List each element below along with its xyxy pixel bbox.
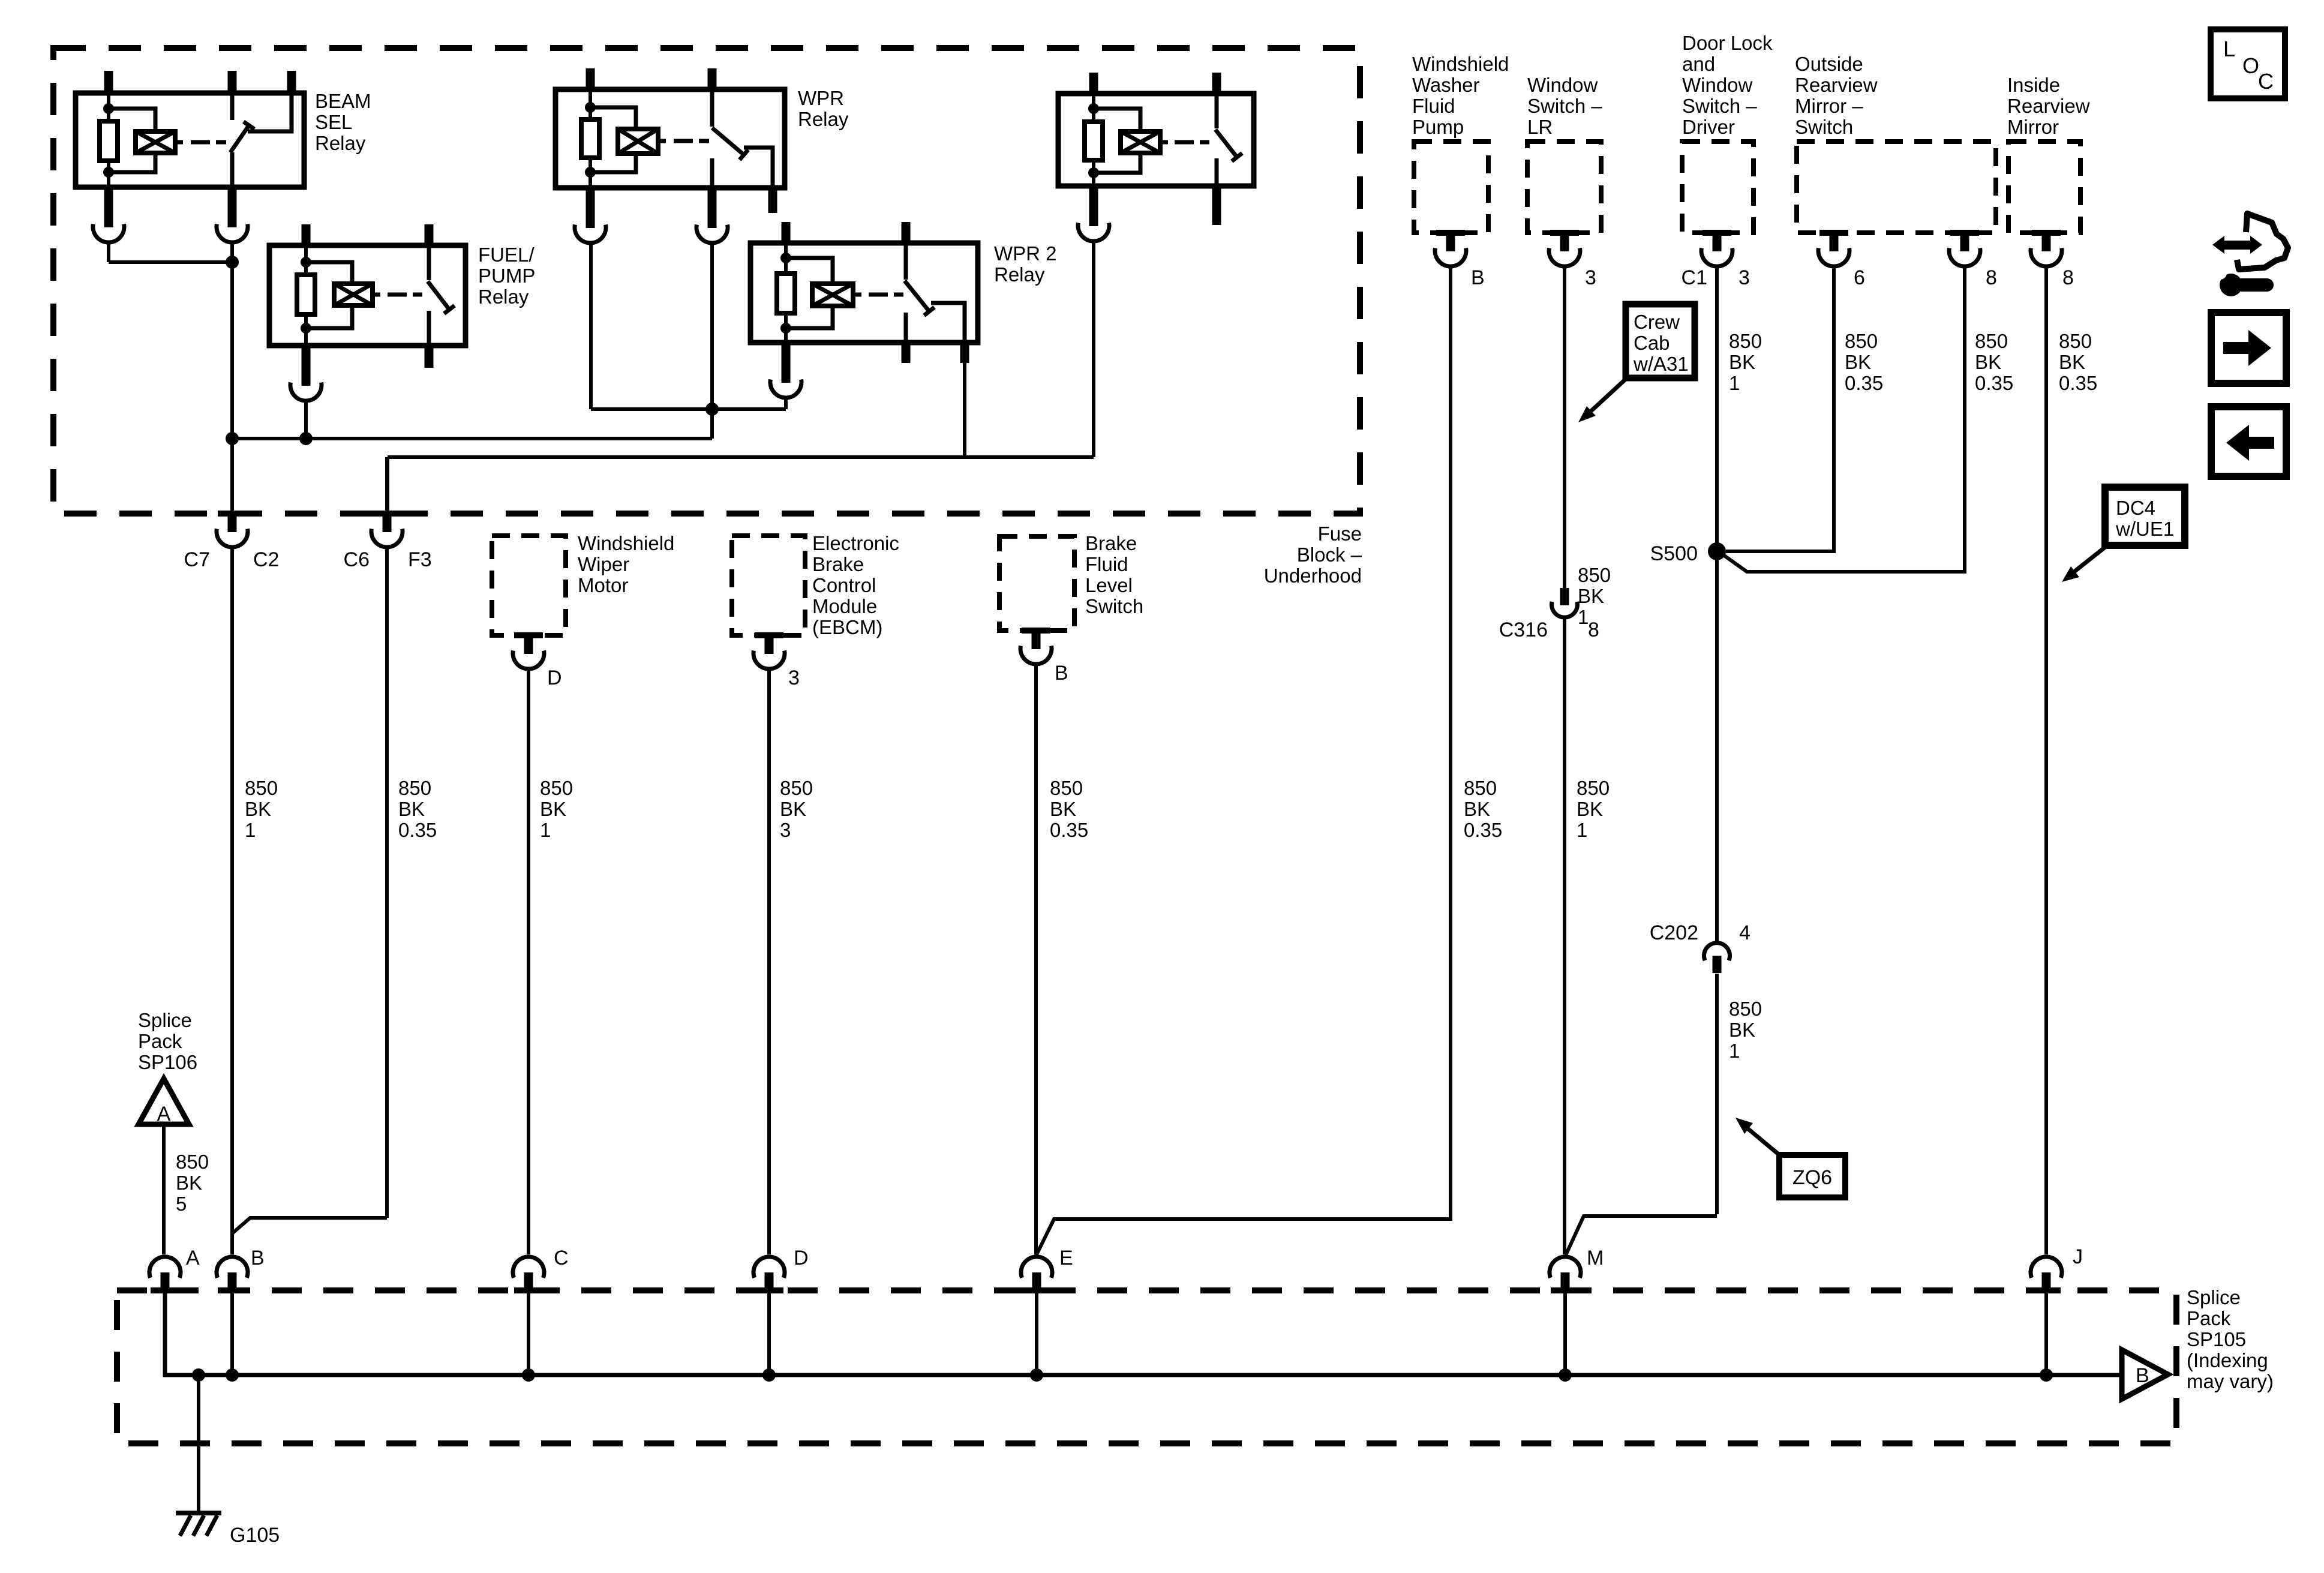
svg-text:Rearview: Rearview [2007, 95, 2090, 117]
svg-text:850: 850 [780, 777, 813, 799]
svg-text:BK: BK [1578, 585, 1604, 607]
svg-text:0.35: 0.35 [1050, 819, 1088, 841]
svg-text:D: D [547, 667, 562, 689]
svg-text:C316: C316 [1499, 619, 1548, 641]
svg-text:Electronic: Electronic [812, 532, 899, 554]
svg-text:and: and [1682, 53, 1715, 75]
svg-text:BK: BK [780, 798, 806, 820]
svg-text:w/UE1: w/UE1 [2115, 518, 2174, 540]
svg-text:BK: BK [398, 798, 425, 820]
svg-text:Motor: Motor [578, 574, 628, 596]
svg-text:0.35: 0.35 [398, 819, 437, 841]
svg-text:FUEL/: FUEL/ [478, 244, 535, 266]
svg-text:SEL: SEL [315, 111, 352, 133]
svg-text:L: L [2223, 37, 2235, 61]
svg-text:1: 1 [1577, 819, 1587, 841]
svg-text:Underhood: Underhood [1264, 565, 1362, 587]
svg-text:1: 1 [245, 819, 256, 841]
svg-text:Driver: Driver [1682, 116, 1735, 138]
svg-text:C2: C2 [253, 548, 279, 571]
svg-text:(Indexing: (Indexing [2187, 1349, 2268, 1371]
svg-text:3: 3 [788, 667, 800, 689]
svg-text:A: A [186, 1247, 200, 1269]
svg-text:Switch –: Switch – [1527, 95, 1602, 117]
svg-text:F3: F3 [408, 548, 432, 571]
svg-text:BK: BK [1577, 798, 1603, 820]
svg-text:WPR 2: WPR 2 [994, 242, 1057, 265]
svg-text:Outside: Outside [1795, 53, 1863, 75]
svg-text:BK: BK [540, 798, 566, 820]
svg-text:Mirror: Mirror [2007, 116, 2059, 138]
svg-text:Relay: Relay [315, 132, 366, 154]
svg-text:B: B [1055, 662, 1068, 685]
svg-text:Brake: Brake [812, 553, 864, 575]
svg-text:BK: BK [1729, 351, 1755, 373]
svg-text:BEAM: BEAM [315, 90, 371, 112]
svg-text:850: 850 [245, 777, 278, 799]
svg-text:5: 5 [176, 1193, 187, 1215]
svg-text:Level: Level [1085, 574, 1133, 596]
svg-text:Switch –: Switch – [1682, 95, 1757, 117]
svg-text:C7: C7 [184, 548, 210, 571]
svg-text:BK: BK [245, 798, 271, 820]
svg-text:ZQ6: ZQ6 [1792, 1166, 1832, 1189]
svg-text:Wiper: Wiper [578, 553, 629, 575]
svg-text:LR: LR [1527, 116, 1553, 138]
svg-text:850: 850 [1845, 330, 1878, 352]
svg-text:850: 850 [540, 777, 573, 799]
svg-text:BK: BK [1975, 351, 2001, 373]
svg-text:may vary): may vary) [2187, 1370, 2274, 1392]
svg-text:Pump: Pump [1412, 116, 1464, 138]
svg-text:E: E [1059, 1247, 1073, 1269]
svg-text:Windshield: Windshield [1412, 53, 1509, 75]
svg-text:WPR: WPR [798, 87, 844, 109]
svg-text:C: C [2258, 69, 2274, 94]
svg-text:SP106: SP106 [138, 1051, 197, 1073]
svg-text:M: M [1587, 1247, 1604, 1269]
svg-text:850: 850 [1578, 564, 1611, 586]
svg-text:Windshield: Windshield [578, 532, 674, 554]
svg-text:850: 850 [1464, 777, 1497, 799]
svg-text:Relay: Relay [994, 263, 1045, 286]
svg-text:Fluid: Fluid [1085, 553, 1128, 575]
svg-text:Switch: Switch [1795, 116, 1853, 138]
svg-text:8: 8 [1588, 619, 1599, 641]
svg-text:Pack: Pack [2187, 1307, 2231, 1329]
svg-text:BK: BK [1050, 798, 1076, 820]
svg-text:Control: Control [812, 574, 876, 596]
svg-text:C202: C202 [1650, 921, 1698, 944]
svg-text:Module: Module [812, 595, 877, 617]
svg-text:Splice: Splice [2187, 1286, 2241, 1308]
svg-text:3: 3 [1585, 266, 1596, 289]
svg-text:SP105: SP105 [2187, 1328, 2246, 1350]
svg-text:8: 8 [2062, 266, 2074, 289]
svg-text:Inside: Inside [2007, 74, 2060, 96]
svg-text:Cab: Cab [1634, 332, 1670, 354]
svg-text:BK: BK [1464, 798, 1490, 820]
svg-text:1: 1 [1729, 372, 1740, 394]
svg-text:4: 4 [1739, 921, 1750, 944]
svg-text:DC4: DC4 [2116, 497, 2155, 519]
svg-text:BK: BK [1845, 351, 1871, 373]
svg-text:D: D [794, 1247, 809, 1269]
svg-text:C: C [554, 1247, 569, 1269]
svg-text:C1: C1 [1682, 266, 1707, 289]
svg-text:Fuse: Fuse [1318, 523, 1362, 545]
svg-text:PUMP: PUMP [478, 265, 535, 287]
svg-text:Block –: Block – [1297, 544, 1362, 566]
svg-text:1: 1 [1578, 606, 1589, 628]
svg-text:0.35: 0.35 [1975, 372, 2013, 394]
svg-text:0.35: 0.35 [1845, 372, 1883, 394]
svg-text:O: O [2242, 53, 2259, 78]
svg-text:Splice: Splice [138, 1009, 192, 1031]
svg-text:8: 8 [1986, 266, 1997, 289]
svg-text:BK: BK [2059, 351, 2085, 373]
svg-text:1: 1 [1729, 1040, 1740, 1062]
svg-text:Mirror –: Mirror – [1795, 95, 1863, 117]
svg-text:Washer: Washer [1412, 74, 1479, 96]
svg-text:6: 6 [1854, 266, 1865, 289]
svg-text:B: B [1471, 266, 1485, 289]
svg-text:C6: C6 [344, 548, 370, 571]
svg-text:Door Lock: Door Lock [1682, 32, 1773, 54]
svg-text:850: 850 [1050, 777, 1083, 799]
svg-text:Relay: Relay [798, 108, 849, 130]
svg-text:B: B [251, 1247, 265, 1269]
svg-text:Window: Window [1682, 74, 1753, 96]
svg-text:Fluid: Fluid [1412, 95, 1455, 117]
svg-text:J: J [2073, 1245, 2083, 1268]
svg-text:850: 850 [1729, 330, 1762, 352]
svg-text:Switch: Switch [1085, 595, 1143, 617]
svg-text:850: 850 [1577, 777, 1610, 799]
svg-text:Crew: Crew [1634, 311, 1680, 333]
svg-text:G105: G105 [230, 1524, 280, 1547]
svg-text:850: 850 [2059, 330, 2092, 352]
svg-text:1: 1 [540, 819, 551, 841]
svg-text:S500: S500 [1650, 542, 1698, 565]
svg-text:A: A [157, 1103, 171, 1125]
svg-text:w/A31: w/A31 [1633, 353, 1689, 375]
svg-text:850: 850 [398, 777, 431, 799]
svg-text:Relay: Relay [478, 286, 529, 308]
svg-text:0.35: 0.35 [1464, 819, 1502, 841]
svg-text:(EBCM): (EBCM) [812, 616, 882, 638]
svg-text:Brake: Brake [1085, 532, 1137, 554]
svg-text:BK: BK [176, 1172, 202, 1194]
svg-text:850: 850 [176, 1151, 209, 1173]
svg-text:850: 850 [1729, 998, 1762, 1020]
svg-text:850: 850 [1975, 330, 2008, 352]
svg-text:3: 3 [1739, 266, 1750, 289]
svg-text:3: 3 [780, 819, 791, 841]
svg-text:Pack: Pack [138, 1030, 182, 1052]
svg-text:BK: BK [1729, 1019, 1755, 1041]
svg-text:Rearview: Rearview [1795, 74, 1878, 96]
svg-text:Window: Window [1527, 74, 1598, 96]
svg-text:B: B [2136, 1364, 2149, 1387]
svg-text:0.35: 0.35 [2059, 372, 2097, 394]
